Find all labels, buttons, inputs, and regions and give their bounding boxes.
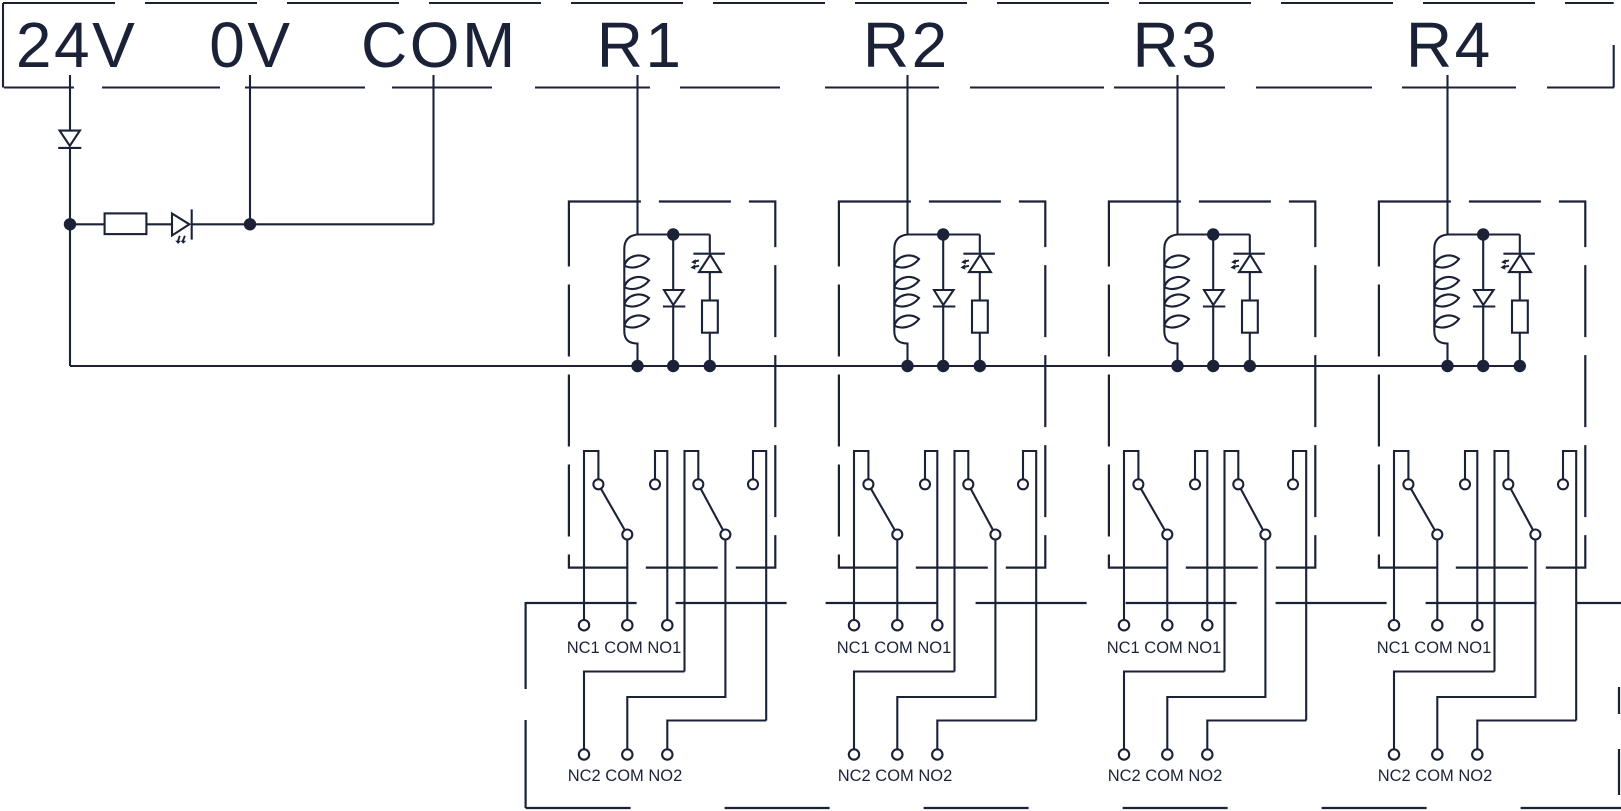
svg-text:NC1 COM NO1: NC1 COM NO1 (1107, 639, 1222, 657)
wire NC2 jog (1124, 672, 1225, 750)
flyback diode D4a (1473, 290, 1495, 307)
svg-text:NC1 COM NO1: NC1 COM NO1 (837, 639, 952, 657)
svg-text:0V: 0V (209, 9, 292, 81)
terminal NC2 K1 (579, 749, 589, 759)
svg-text:R4: R4 (1406, 9, 1493, 81)
pole 2 pivot (720, 530, 730, 540)
terminal NC2 K2 (849, 749, 859, 759)
svg-text:NC1 COM NO1: NC1 COM NO1 (1377, 639, 1492, 657)
flyback diode D4a wire (1482, 235, 1484, 367)
NO2 fixed contact (1558, 479, 1568, 489)
wire COM down (432, 75, 434, 224)
pole 1 pivot (892, 530, 902, 540)
status LED D2b wire (979, 235, 981, 301)
node A junction (64, 218, 76, 230)
terminal NC1 K1 (579, 620, 589, 630)
coil bus junction (1441, 360, 1453, 372)
flyback diode D1a wire (672, 235, 674, 367)
svg-text:NC2 COM NO2: NC2 COM NO2 (838, 767, 953, 785)
switch arm 1 K3 (1138, 484, 1167, 534)
svg-text:R3: R3 (1132, 9, 1219, 81)
NC2 fixed contact (1233, 479, 1243, 489)
terminal NO1 K1 (662, 620, 672, 630)
coil K1 (624, 235, 649, 367)
terminal COM2 K2 (892, 749, 902, 759)
svg-text:NC2 COM NO2: NC2 COM NO2 (1378, 767, 1493, 785)
coil bus junction (901, 360, 913, 372)
wire coil top rail (1448, 233, 1520, 235)
status LED D4b wire (1519, 235, 1521, 301)
LED bus junction (1244, 360, 1256, 372)
svg-text:R2: R2 (863, 9, 950, 81)
terminal NO2 K3 (1202, 749, 1212, 759)
NO2 fixed contact (1288, 479, 1298, 489)
pole 2 pivot (990, 530, 1000, 540)
NO1 fixed contact (920, 479, 930, 489)
coil bus junction (631, 360, 643, 372)
pole 2 pivot (1260, 530, 1270, 540)
diode bus junction (667, 360, 679, 372)
NO1 fixed contact (1460, 479, 1470, 489)
LED D6 power indicator (172, 209, 192, 244)
NO2 fixed contact (748, 479, 758, 489)
status LED D2b (960, 254, 995, 272)
wire 24V down (69, 75, 71, 224)
wire coil top rail (908, 233, 980, 235)
terminal strip border (3, 3, 1614, 88)
flyback diode D2a (933, 290, 955, 307)
status LED D3b wire (1249, 235, 1251, 301)
pole 1 pivot (622, 530, 632, 540)
wire COM1 K3 (1166, 535, 1168, 621)
terminal COM2 K4 (1432, 749, 1442, 759)
wire resistor to bus (1519, 333, 1521, 366)
wire LED to COM (192, 223, 434, 225)
coil K2 (894, 235, 919, 367)
terminal COM1 K2 (892, 620, 902, 630)
terminal NC1 K4 (1389, 620, 1399, 630)
wire 0V down (249, 75, 251, 224)
wire COM1 K2 (896, 535, 898, 621)
wire NO2 jog (937, 721, 1036, 750)
terminal NO1 K2 (932, 620, 942, 630)
contact NO2 staple K3 (1293, 451, 1306, 721)
wire COM2 jog (627, 535, 725, 750)
resistor R5 (105, 213, 147, 234)
wire 24V branch down (69, 224, 71, 366)
wire resistor to bus (1249, 333, 1251, 366)
status LED D4b (1500, 254, 1535, 272)
coil K3 (1164, 235, 1189, 367)
terminal COM2 K3 (1162, 749, 1172, 759)
wire NO2 jog (1477, 721, 1576, 750)
terminal NO1 K4 (1472, 620, 1482, 630)
contact NO2 staple K1 (753, 451, 766, 721)
contact NC1 staple K3 (1124, 451, 1138, 620)
resistor R4a (1512, 301, 1528, 333)
terminal NO2 K4 (1472, 749, 1482, 759)
wire NC2 jog (1394, 672, 1495, 750)
coil K4 (1434, 235, 1459, 367)
terminal COM1 K4 (1432, 620, 1442, 630)
relay K4 (R4) dashed box (1379, 202, 1585, 568)
NO2 fixed contact (1018, 479, 1028, 489)
output terminal box border (526, 602, 1621, 808)
wire COM2 jog (1167, 535, 1265, 750)
flyback diode D2a wire (942, 235, 944, 367)
wire resistor to bus (709, 333, 711, 366)
NO1 fixed contact (650, 479, 660, 489)
contact NO1 staple K1 (655, 451, 667, 620)
switch arm 1 K4 (1408, 484, 1437, 534)
relay K3 (R3) dashed box (1109, 202, 1315, 568)
wire resistor to LED (146, 223, 172, 225)
diode D1 input (24V) (58, 131, 81, 148)
wire R2 control down (906, 75, 908, 235)
status LED D3b (1230, 254, 1265, 272)
terminal COM1 K3 (1162, 620, 1172, 630)
resistor R2a (972, 301, 988, 333)
flyback diode D1a (663, 290, 685, 307)
NO1 fixed contact (1190, 479, 1200, 489)
diode bus junction (937, 360, 949, 372)
rail junction (1207, 228, 1219, 240)
NC2 fixed contact (1503, 479, 1513, 489)
pole 1 pivot (1432, 530, 1442, 540)
wire R1 control down (636, 75, 638, 235)
wire NC2 jog (854, 672, 955, 750)
resistor R3a (1242, 301, 1258, 333)
contact NO1 staple K3 (1195, 451, 1207, 620)
diode bus junction (1207, 360, 1219, 372)
wire coil top rail (1178, 233, 1250, 235)
diode bus junction (1477, 360, 1489, 372)
terminal COM2 K1 (622, 749, 632, 759)
wire R4 control down (1446, 75, 1448, 235)
terminal COM1 K1 (622, 620, 632, 630)
contact NC2 staple K3 (1225, 451, 1239, 672)
NC1 fixed contact (863, 479, 873, 489)
NC1 fixed contact (1133, 479, 1143, 489)
LED bus junction (974, 360, 986, 372)
svg-text:COM: COM (361, 9, 518, 81)
relay K1 (R1) dashed box (569, 202, 775, 568)
contact NC1 staple K2 (854, 451, 868, 620)
NC2 fixed contact (693, 479, 703, 489)
wire coil top rail (638, 233, 710, 235)
LED bus junction (1514, 360, 1526, 372)
contact NC2 staple K1 (685, 451, 699, 672)
switch arm 2 K1 (698, 484, 725, 534)
coil bus junction (1171, 360, 1183, 372)
terminal NO2 K2 (932, 749, 942, 759)
NC2 fixed contact (963, 479, 973, 489)
rail junction (1477, 228, 1489, 240)
svg-text:NC2 COM NO2: NC2 COM NO2 (568, 767, 683, 785)
contact NC1 staple K4 (1394, 451, 1408, 620)
switch arm 1 K2 (868, 484, 897, 534)
contact NO2 staple K2 (1023, 451, 1036, 721)
wire node A to resistor (70, 223, 105, 225)
node 0V junction (244, 218, 256, 230)
wire coil supply bus (70, 365, 1520, 367)
wire NO2 jog (1207, 721, 1306, 750)
svg-text:24V: 24V (16, 9, 137, 81)
terminal NO1 K3 (1202, 620, 1212, 630)
contact NC1 staple K1 (584, 451, 598, 620)
svg-text:NC2 COM NO2: NC2 COM NO2 (1108, 767, 1223, 785)
wire R3 control down (1176, 75, 1178, 235)
terminal NO2 K1 (662, 749, 672, 759)
wire COM2 jog (897, 535, 995, 750)
wire NO2 jog (667, 721, 766, 750)
wire NC2 jog (584, 672, 685, 750)
contact NC2 staple K2 (955, 451, 969, 672)
svg-text:R1: R1 (597, 9, 684, 81)
contact NO2 staple K4 (1563, 451, 1576, 721)
status LED D1b wire (709, 235, 711, 301)
contact NO1 staple K2 (925, 451, 937, 620)
flyback diode D3a wire (1212, 235, 1214, 367)
terminal NC2 K4 (1389, 749, 1399, 759)
flyback diode D3a (1203, 290, 1225, 307)
status LED D1b (690, 254, 725, 272)
rail junction (937, 228, 949, 240)
wire COM1 K1 (626, 535, 628, 621)
relay K2 (R2) dashed box (839, 202, 1045, 568)
terminal NC1 K3 (1119, 620, 1129, 630)
rail junction (667, 228, 679, 240)
switch arm 2 K3 (1238, 484, 1265, 534)
switch arm 2 K2 (968, 484, 995, 534)
resistor R1a (702, 301, 718, 333)
wire COM2 jog (1437, 535, 1535, 750)
switch arm 2 K4 (1508, 484, 1535, 534)
switch arm 1 K1 (598, 484, 627, 534)
terminal NC2 K3 (1119, 749, 1129, 759)
contact NO1 staple K4 (1465, 451, 1477, 620)
NC1 fixed contact (1403, 479, 1413, 489)
svg-text:NC1 COM NO1: NC1 COM NO1 (567, 639, 682, 657)
pole 1 pivot (1162, 530, 1172, 540)
wire resistor to bus (979, 333, 981, 366)
contact NC2 staple K4 (1495, 451, 1509, 672)
wire COM1 K4 (1436, 535, 1438, 621)
NC1 fixed contact (593, 479, 603, 489)
terminal NC1 K2 (849, 620, 859, 630)
LED bus junction (704, 360, 716, 372)
pole 2 pivot (1530, 530, 1540, 540)
